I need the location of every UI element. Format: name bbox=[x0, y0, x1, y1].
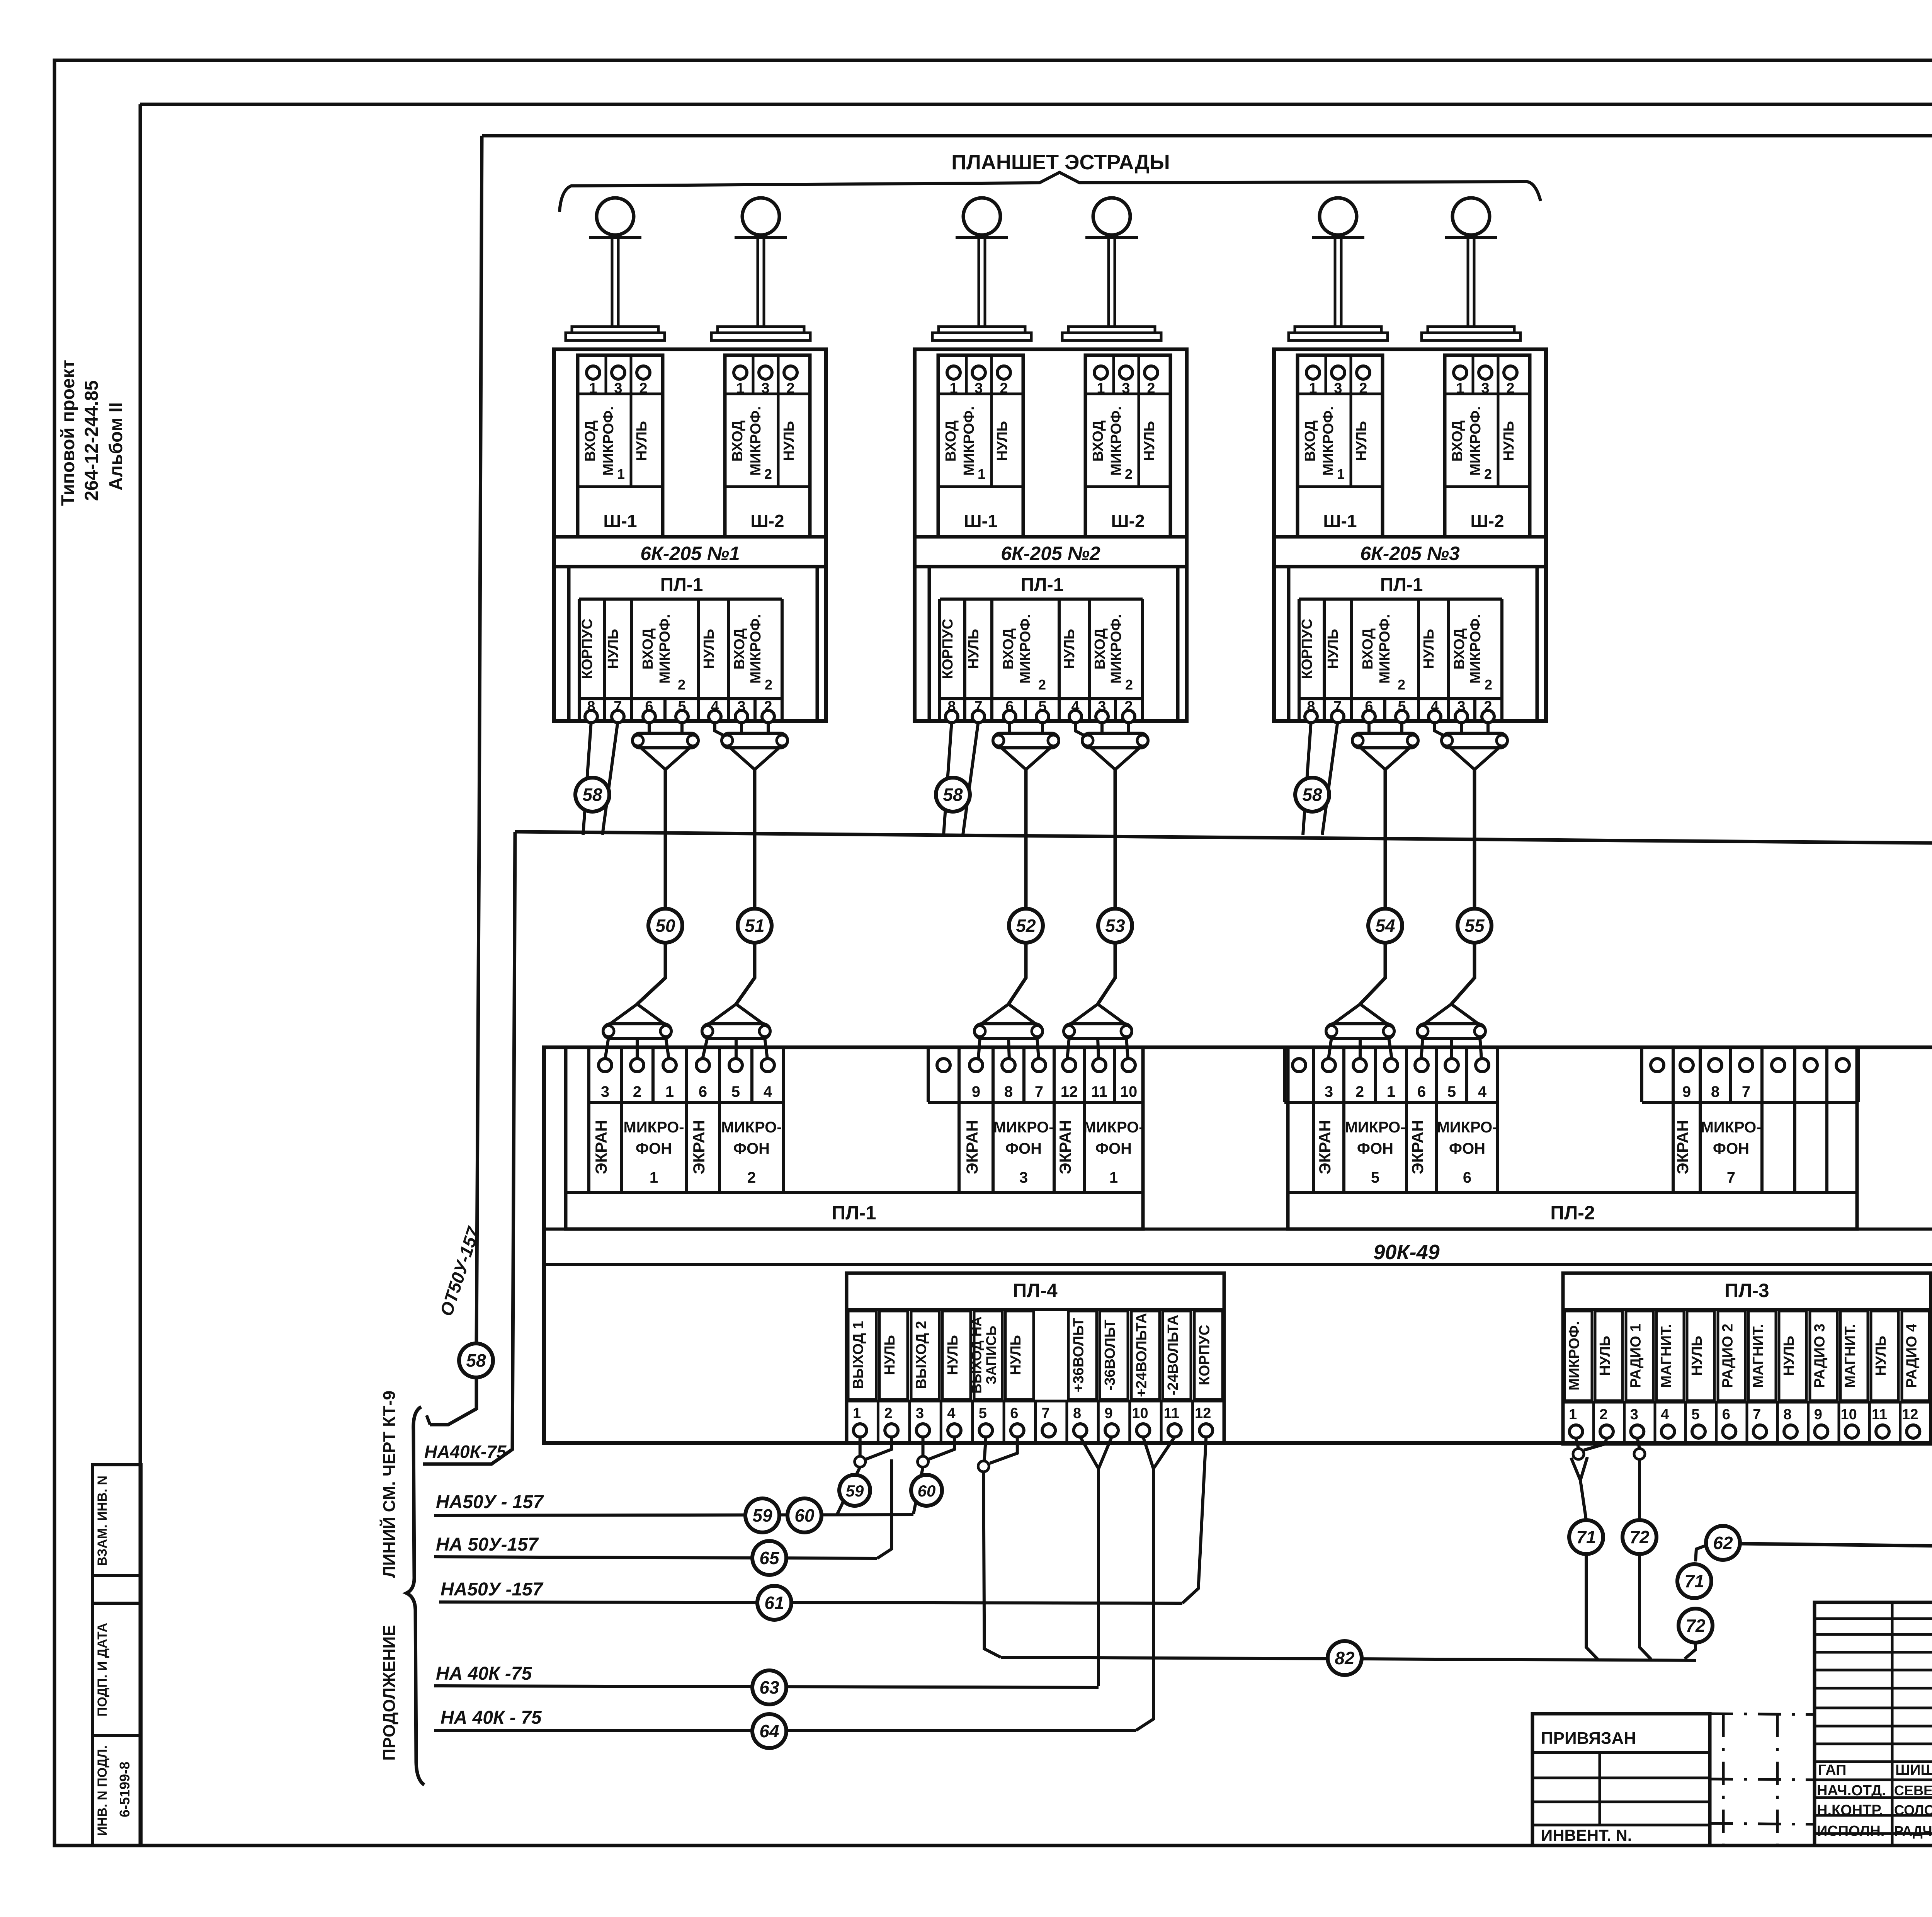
svg-text:Альбом II: Альбом II bbox=[106, 402, 126, 491]
cable circle 52 bbox=[1009, 909, 1043, 943]
svg-text:НУЛЬ: НУЛЬ bbox=[1501, 421, 1517, 461]
ПЛ-4 column 3 ВЫХОД 2 bbox=[911, 1311, 939, 1399]
svg-text:КОРПУС: КОРПУС bbox=[940, 619, 956, 679]
wire ПЛ-4 pin3 to junction bbox=[922, 1437, 925, 1456]
ПЛ-3 column 2 НУЛЬ bbox=[1595, 1311, 1622, 1401]
cable wire with circle 72 from ПЛ-3 down to line 82 bbox=[1638, 1459, 1641, 1520]
svg-text:ПОДП. И ДАТА: ПОДП. И ДАТА bbox=[95, 1623, 110, 1716]
svg-text:7: 7 bbox=[1742, 1083, 1750, 1100]
svg-text:52: 52 bbox=[1016, 916, 1036, 936]
svg-text:ВХОД: ВХОД bbox=[1092, 628, 1108, 670]
cable run 53 from block to strip bbox=[1098, 770, 1115, 1004]
svg-text:58: 58 bbox=[1302, 785, 1322, 805]
block 6К-205 №3 bbox=[1274, 349, 1546, 721]
hook wire from circle 62 down to stacked circles 71 72 bbox=[1696, 1545, 1707, 1561]
diagonal wire from junction3 to line 59/60 with circle 60 bbox=[913, 1467, 923, 1514]
svg-text:ШИШКОВ: ШИШКОВ bbox=[1895, 1762, 1932, 1778]
svg-text:12: 12 bbox=[1195, 1405, 1211, 1422]
connector Ш-2 bbox=[1445, 355, 1530, 537]
svg-text:МАГНИТ.: МАГНИТ. bbox=[1658, 1324, 1675, 1388]
svg-text:62: 62 bbox=[1713, 1533, 1733, 1553]
strip-side shield symbol for cable 52 bbox=[980, 1004, 1009, 1025]
svg-text:3: 3 bbox=[1630, 1406, 1638, 1423]
svg-text:ВХОД: ВХОД bbox=[731, 628, 748, 670]
ПЛ-3 column 8 НУЛЬ bbox=[1779, 1311, 1806, 1401]
plate ПЛ-1 of 6К-205 №3 bbox=[1289, 567, 1537, 721]
svg-text:6: 6 bbox=[1417, 1083, 1426, 1100]
connector Ш-2 bbox=[1085, 355, 1170, 537]
amplifier unit 90К-49 outer box bbox=[544, 1047, 1932, 1443]
ПЛ-4 column 12 КОРПУС bbox=[1194, 1311, 1223, 1399]
microphone BM1 bbox=[597, 198, 634, 235]
outgoing line to НА40К-75 with circle 63 bbox=[434, 1686, 1099, 1687]
svg-text:НУЛЬ: НУЛЬ bbox=[994, 421, 1010, 461]
svg-text:6: 6 bbox=[1010, 1405, 1018, 1422]
shield symbol under pins 4,3,2 bbox=[1435, 721, 1447, 737]
svg-text:7: 7 bbox=[1042, 1405, 1050, 1422]
svg-text:1: 1 bbox=[853, 1405, 861, 1422]
svg-text:50: 50 bbox=[655, 916, 675, 936]
svg-text:МИКРО-: МИКРО- bbox=[721, 1119, 782, 1136]
svg-text:11: 11 bbox=[1164, 1405, 1179, 1422]
stacked cable circle 71 bbox=[1677, 1564, 1711, 1598]
svg-text:ПЛ-1: ПЛ-1 bbox=[1380, 575, 1423, 595]
svg-text:Ш-1: Ш-1 bbox=[964, 511, 997, 531]
svg-text:НУЛЬ: НУЛЬ bbox=[1354, 421, 1370, 461]
svg-text:5: 5 bbox=[1691, 1406, 1699, 1423]
ПЛ-3 column 6 РАДИО 2 bbox=[1718, 1311, 1745, 1401]
svg-text:РАДИО 4: РАДИО 4 bbox=[1903, 1324, 1920, 1388]
svg-text:9: 9 bbox=[1682, 1083, 1691, 1100]
plate ПЛ-1 of 6К-205 №1 bbox=[569, 567, 817, 721]
wire ПЛ-4 pin2 continues down to line 65 bbox=[877, 1459, 891, 1558]
svg-text:ВХОД: ВХОД bbox=[1360, 628, 1376, 670]
svg-text:59: 59 bbox=[752, 1505, 772, 1525]
label cell ('МИКРО-', 'ФОН', '7') of ПЛ-2 bbox=[1700, 1102, 1762, 1192]
label cell ('МИКРО-', 'ФОН', '2') of ПЛ-1 bbox=[719, 1102, 784, 1192]
svg-text:ЭКРАН: ЭКРАН bbox=[1673, 1120, 1692, 1175]
svg-text:71: 71 bbox=[1684, 1571, 1704, 1591]
svg-text:НУЛЬ: НУЛЬ bbox=[1689, 1336, 1705, 1376]
svg-text:11: 11 bbox=[1091, 1083, 1107, 1100]
cable run 55 from block to strip bbox=[1451, 770, 1475, 1004]
binding table ПРИВЯЗАН bbox=[1532, 1714, 1710, 1845]
label cell ЭКРАН of ПЛ-1 bbox=[1054, 1102, 1084, 1192]
label cell blank of ПЛ-2 bbox=[1762, 1102, 1795, 1192]
ПЛ-3 column 4 МАГНИТ. bbox=[1656, 1311, 1684, 1401]
label cell ('МИКРО-', 'ФОН', '6') of ПЛ-2 bbox=[1437, 1102, 1498, 1192]
left sidebar spacer box bbox=[93, 1576, 141, 1603]
svg-text:НА 40К - 75: НА 40К - 75 bbox=[440, 1708, 542, 1728]
svg-text:8: 8 bbox=[1073, 1405, 1081, 1422]
svg-text:12: 12 bbox=[1061, 1083, 1078, 1100]
svg-text:7: 7 bbox=[1035, 1083, 1043, 1100]
svg-text:9: 9 bbox=[1104, 1405, 1112, 1422]
big brace ПРОДОЛЖЕНИЕ ЛИНИЙ bbox=[406, 1407, 424, 1785]
svg-text:МИКРОФ.: МИКРОФ. bbox=[1017, 614, 1034, 684]
svg-text:МИКРО-: МИКРО- bbox=[1701, 1119, 1761, 1136]
svg-text:ПРОДОЛЖЕНИЕ: ПРОДОЛЖЕНИЕ bbox=[380, 1625, 399, 1760]
svg-text:Ш-2: Ш-2 bbox=[750, 511, 784, 531]
svg-text:2: 2 bbox=[633, 1083, 641, 1100]
V wires from ПЛ-4 pins 10,11 down to line 64 bbox=[1143, 1437, 1153, 1469]
label cell ('МИКРО-', 'ФОН', '1') of ПЛ-1 bbox=[1084, 1102, 1143, 1192]
svg-text:ФОН: ФОН bbox=[1005, 1140, 1042, 1157]
svg-text:Ш-2: Ш-2 bbox=[1470, 511, 1504, 531]
svg-text:2: 2 bbox=[1484, 466, 1492, 482]
svg-text:4: 4 bbox=[1661, 1406, 1669, 1423]
room left wall continuing as ground wire to cable 58 exit bbox=[476, 136, 482, 1343]
svg-text:-24ВОЛЬТА: -24ВОЛЬТА bbox=[1165, 1315, 1181, 1395]
junction circle under ПЛ-4 pin 5 and pin6 bend bbox=[978, 1461, 989, 1472]
ground wires pins 8,7 to bus bbox=[1303, 721, 1311, 835]
svg-text:НУЛЬ: НУЛЬ bbox=[1873, 1336, 1889, 1376]
svg-text:НУЛЬ: НУЛЬ bbox=[1597, 1336, 1613, 1376]
plate ПЛ-2 box x=3333 bbox=[1288, 1047, 1857, 1229]
V wires from ПЛ-4 pins 8,9 down to line 63 bbox=[1080, 1437, 1099, 1469]
label cell ЭКРАН of ПЛ-1 bbox=[686, 1102, 719, 1192]
shield fan under ПЛ-3 junction1 bbox=[1571, 1458, 1580, 1480]
ПЛ-4 column 9 -36ВОЛЬТ bbox=[1100, 1311, 1128, 1399]
shield symbol under pins 4,3,2 bbox=[715, 721, 728, 737]
cable circle 62 at end of trench run bbox=[1706, 1526, 1740, 1560]
microphone BM3 bbox=[963, 198, 1000, 235]
svg-text:НУЛЬ: НУЛЬ bbox=[1325, 629, 1341, 669]
cable run 52 from block to strip bbox=[1009, 770, 1026, 1004]
ПЛ-4 column 4 НУЛЬ bbox=[942, 1311, 971, 1399]
svg-text:ФОН: ФОН bbox=[1095, 1140, 1132, 1157]
connector Ш-1 bbox=[578, 355, 663, 537]
svg-text:10: 10 bbox=[1132, 1405, 1148, 1422]
svg-text:НУЛЬ: НУЛЬ bbox=[1141, 421, 1158, 461]
room boundary top wall bbox=[482, 134, 1932, 138]
cable wire with circle 71 from ПЛ-3 down to line 82 bbox=[1580, 1480, 1586, 1520]
svg-text:64: 64 bbox=[759, 1721, 779, 1741]
terminal cells of ПЛ-2 pins 9 8 7 bbox=[1640, 1047, 1643, 1102]
cable circle 55 bbox=[1458, 909, 1492, 943]
stacked cable circle 72 bbox=[1679, 1609, 1713, 1643]
svg-text:МИКРОФ.: МИКРОФ. bbox=[1468, 614, 1484, 684]
svg-text:ВХОД: ВХОД bbox=[1302, 421, 1318, 462]
svg-text:Ш-1: Ш-1 bbox=[1323, 511, 1357, 531]
horizontal line with circle 82 bbox=[1001, 1657, 1696, 1660]
block 6К-205 №1 bbox=[554, 349, 826, 721]
strip-side shield symbol for cable 54 bbox=[1332, 1004, 1360, 1025]
svg-text:264-12-244.85: 264-12-244.85 bbox=[82, 380, 102, 501]
svg-text:6К-205 №2: 6К-205 №2 bbox=[1001, 543, 1100, 564]
wire ПЛ-4 pin4 bend to junction under pin3 bbox=[929, 1437, 954, 1459]
ПЛ-4 column 10 +24ВОЛЬТА bbox=[1131, 1311, 1160, 1399]
svg-text:ПЛ-4: ПЛ-4 bbox=[1013, 1280, 1058, 1301]
svg-text:МИКРО-: МИКРО- bbox=[623, 1119, 684, 1136]
ПЛ-4 column 6 НУЛЬ bbox=[1005, 1311, 1034, 1399]
outgoing line to НА50У-157 with circle 65 bbox=[434, 1557, 877, 1558]
svg-text:НУЛЬ: НУЛЬ bbox=[605, 629, 621, 669]
svg-text:10: 10 bbox=[1841, 1406, 1857, 1423]
svg-text:8: 8 bbox=[1004, 1083, 1013, 1100]
svg-text:НАЧ.ОТД.: НАЧ.ОТД. bbox=[1817, 1783, 1886, 1799]
wire ПЛ-4 pin2 bend to junction under pin1 bbox=[866, 1437, 891, 1459]
ground bus / room bottom wall bbox=[515, 832, 1932, 846]
svg-text:60: 60 bbox=[918, 1482, 936, 1500]
label cell ЭКРАН of ПЛ-1 bbox=[959, 1102, 993, 1192]
svg-text:РАДИО 1: РАДИО 1 bbox=[1628, 1324, 1644, 1388]
microphone BM6 bbox=[1452, 198, 1490, 235]
svg-text:РАДЧЕНКО: РАДЧЕНКО bbox=[1894, 1823, 1932, 1839]
svg-text:ИНВЕНТ. N.: ИНВЕНТ. N. bbox=[1541, 1826, 1632, 1844]
ПЛ-3 column 11 НУЛЬ bbox=[1871, 1311, 1898, 1401]
wire ПЛ-3 pin2 diagonal to junction1 bbox=[1584, 1438, 1607, 1450]
svg-text:1: 1 bbox=[1337, 466, 1345, 482]
svg-text:ПЛ-1: ПЛ-1 bbox=[832, 1202, 876, 1224]
svg-text:2: 2 bbox=[884, 1405, 893, 1422]
svg-text:МИКРО-: МИКРО- bbox=[1437, 1119, 1497, 1136]
svg-text:МИКРОФ.: МИКРОФ. bbox=[1377, 614, 1393, 684]
plate ПЛ-1 of 6К-205 №2 bbox=[929, 567, 1178, 721]
svg-text:6К-205 №3: 6К-205 №3 bbox=[1360, 543, 1460, 564]
svg-text:НУЛЬ: НУЛЬ bbox=[634, 421, 650, 461]
svg-text:НУЛЬ: НУЛЬ bbox=[945, 1335, 961, 1375]
shield symbol under pins 4,3,2 bbox=[1075, 721, 1088, 737]
svg-text:НА 50У-157: НА 50У-157 bbox=[436, 1534, 539, 1555]
svg-text:ВХОД: ВХОД bbox=[1000, 628, 1017, 670]
ПЛ-3 column 1 МИКРОФ. bbox=[1565, 1311, 1592, 1401]
shield symbol under pins 6,5 bbox=[648, 721, 651, 734]
svg-text:ПЛ-3: ПЛ-3 bbox=[1725, 1280, 1769, 1301]
svg-text:11: 11 bbox=[1872, 1406, 1887, 1423]
svg-text:6К-205 №1: 6К-205 №1 bbox=[640, 543, 740, 564]
ПЛ-4 column 11 -24ВОЛЬТА bbox=[1163, 1311, 1191, 1399]
svg-text:ПЛ-2: ПЛ-2 bbox=[1550, 1202, 1595, 1224]
svg-text:ЛИНИЙ СМ. ЧЕРТ КТ-9: ЛИНИЙ СМ. ЧЕРТ КТ-9 bbox=[379, 1391, 399, 1578]
svg-text:+24ВОЛЬТА: +24ВОЛЬТА bbox=[1133, 1313, 1150, 1397]
svg-text:61: 61 bbox=[764, 1593, 784, 1613]
svg-text:2: 2 bbox=[764, 466, 772, 482]
svg-text:5: 5 bbox=[979, 1405, 987, 1422]
strip-side shield symbol for cable 51 bbox=[707, 1004, 736, 1025]
plate ПЛ-3 box bbox=[1563, 1273, 1931, 1444]
svg-text:ИСПОЛН.: ИСПОЛН. bbox=[1817, 1823, 1884, 1839]
svg-text:НУЛЬ: НУЛЬ bbox=[781, 421, 797, 461]
svg-text:+36ВОЛЬТ: +36ВОЛЬТ bbox=[1071, 1318, 1087, 1393]
svg-text:1: 1 bbox=[1387, 1083, 1395, 1100]
inner frame top line bbox=[140, 103, 1932, 106]
svg-text:58: 58 bbox=[582, 785, 602, 805]
svg-text:54: 54 bbox=[1375, 916, 1395, 936]
svg-text:3: 3 bbox=[1325, 1083, 1333, 1100]
wire ПЛ-4 pin12 down to line 61 bbox=[1182, 1437, 1206, 1603]
svg-text:6: 6 bbox=[1463, 1169, 1471, 1186]
cable circle 58 bbox=[575, 778, 609, 812]
junction circle under ПЛ-3 pin 1 bbox=[1573, 1449, 1584, 1459]
ПЛ-4 column 1 ВЫХОД 1 bbox=[848, 1311, 876, 1399]
svg-text:ФОН: ФОН bbox=[733, 1140, 770, 1157]
svg-text:ЭКРАН: ЭКРАН bbox=[1408, 1120, 1427, 1175]
svg-text:НУЛЬ: НУЛЬ bbox=[1061, 629, 1078, 669]
ПЛ-3 column 9 РАДИО 3 bbox=[1810, 1311, 1837, 1401]
svg-text:2: 2 bbox=[765, 677, 772, 693]
svg-text:12: 12 bbox=[1902, 1406, 1918, 1423]
svg-text:ВЫХОД 1: ВЫХОД 1 bbox=[850, 1321, 867, 1389]
label cell ЭКРАН of ПЛ-2 bbox=[1406, 1102, 1437, 1192]
svg-text:НА50У -157: НА50У -157 bbox=[440, 1579, 544, 1600]
svg-text:ГАП: ГАП bbox=[1818, 1762, 1846, 1778]
cable run 54 from block to strip bbox=[1360, 770, 1385, 1004]
svg-text:Ш-2: Ш-2 bbox=[1111, 511, 1145, 531]
svg-text:ВХОД: ВХОД bbox=[1449, 421, 1466, 462]
svg-text:90К-49: 90К-49 bbox=[1373, 1241, 1439, 1264]
svg-text:КОРПУС: КОРПУС bbox=[1299, 619, 1315, 679]
svg-text:2: 2 bbox=[1355, 1083, 1364, 1100]
svg-text:НУЛЬ: НУЛЬ bbox=[966, 629, 982, 669]
svg-text:МИКРО-: МИКРО- bbox=[1345, 1119, 1405, 1136]
svg-text:55: 55 bbox=[1464, 916, 1485, 936]
svg-text:СОЛОДКОВ: СОЛОДКОВ bbox=[1894, 1802, 1932, 1818]
svg-text:ПЛ-1: ПЛ-1 bbox=[1021, 575, 1064, 595]
svg-text:МИКРО-: МИКРО- bbox=[993, 1119, 1054, 1136]
svg-text:МИКРОФ.: МИКРОФ. bbox=[1108, 406, 1124, 476]
microphone BM5 bbox=[1320, 198, 1357, 235]
svg-text:МИКРОФ.: МИКРОФ. bbox=[1320, 406, 1337, 476]
svg-text:71: 71 bbox=[1576, 1527, 1596, 1547]
plate ПЛ-1 box x=1464 bbox=[566, 1047, 1143, 1229]
cable run 50 from block to strip bbox=[637, 770, 665, 1004]
svg-text:МИКРОФ.: МИКРОФ. bbox=[1566, 1321, 1583, 1391]
svg-text:ЭКРАН: ЭКРАН bbox=[963, 1120, 981, 1175]
svg-text:СЕВЕРИНОВ: СЕВЕРИНОВ bbox=[1894, 1783, 1932, 1798]
svg-text:60: 60 bbox=[794, 1505, 815, 1525]
svg-text:-36ВОЛЬТ: -36ВОЛЬТ bbox=[1102, 1319, 1118, 1390]
ПЛ-3 column 7 МАГНИТ. bbox=[1748, 1311, 1776, 1401]
terminal cells of ПЛ-1 pins 3 2 1 6 5 4 bbox=[587, 1047, 590, 1102]
svg-text:ВХОД: ВХОД bbox=[1090, 421, 1106, 462]
shield symbol under pins 6,5 bbox=[1367, 721, 1371, 734]
svg-text:ФОН: ФОН bbox=[636, 1140, 672, 1157]
junction circle under ПЛ-4 pin 3 bbox=[918, 1456, 929, 1467]
svg-text:РАДИО 3: РАДИО 3 bbox=[1811, 1324, 1828, 1388]
svg-text:2: 2 bbox=[1485, 677, 1492, 693]
junction circle under ПЛ-3 pin 3 bbox=[1634, 1449, 1645, 1459]
cable circle 53 bbox=[1098, 909, 1132, 943]
title block revision table bbox=[1815, 1602, 1932, 1845]
svg-text:82: 82 bbox=[1335, 1648, 1355, 1668]
svg-text:ВХОД: ВХОД bbox=[943, 421, 959, 462]
svg-text:ВХОД: ВХОД bbox=[730, 421, 746, 462]
svg-text:65: 65 bbox=[759, 1548, 780, 1568]
microphone BM2 bbox=[742, 198, 779, 235]
left sidebar box ПОДП. И ДАТА bbox=[93, 1603, 141, 1735]
left sidebar box ИНВ. N ПОДЛ. bbox=[93, 1735, 141, 1845]
svg-text:2: 2 bbox=[1038, 677, 1046, 693]
ПЛ-3 column 5 НУЛЬ bbox=[1687, 1311, 1714, 1401]
junction circle under ПЛ-4 pin 1 bbox=[855, 1456, 866, 1467]
inner frame left vertical bbox=[139, 104, 142, 1845]
svg-text:МАГНИТ.: МАГНИТ. bbox=[1842, 1324, 1859, 1388]
svg-text:ВХОД: ВХОД bbox=[640, 628, 656, 670]
svg-text:ЭКРАН: ЭКРАН bbox=[690, 1120, 708, 1175]
svg-text:5: 5 bbox=[731, 1083, 740, 1100]
svg-text:МИКРОФ.: МИКРОФ. bbox=[657, 614, 673, 684]
svg-text:НУЛЬ: НУЛЬ bbox=[1781, 1336, 1797, 1376]
svg-text:51: 51 bbox=[745, 916, 764, 936]
outgoing line to НА50У-157 with circle 61 bbox=[439, 1602, 1182, 1603]
label cell ЭКРАН of ПЛ-2 bbox=[1673, 1102, 1700, 1192]
svg-text:1: 1 bbox=[1569, 1406, 1577, 1423]
strip-side shield symbol for cable 53 bbox=[1069, 1004, 1098, 1025]
svg-text:ВЗАМ. ИНВ. N: ВЗАМ. ИНВ. N bbox=[95, 1476, 110, 1566]
cable circle 50 bbox=[648, 909, 682, 943]
svg-text:7: 7 bbox=[1727, 1169, 1735, 1186]
svg-text:ФОН: ФОН bbox=[1357, 1140, 1393, 1157]
svg-text:10: 10 bbox=[1120, 1083, 1138, 1100]
outgoing line to НА40К-75 with circle 64 bbox=[434, 1729, 1136, 1732]
svg-text:2: 2 bbox=[1398, 677, 1405, 693]
svg-text:4: 4 bbox=[764, 1083, 772, 1100]
svg-text:3: 3 bbox=[601, 1083, 609, 1100]
ПЛ-3 column 3 РАДИО 1 bbox=[1626, 1311, 1653, 1401]
svg-text:8: 8 bbox=[1711, 1083, 1719, 1100]
horizontal line of 90К-49 band bbox=[544, 1263, 1932, 1266]
block 6К-205 №2 bbox=[915, 349, 1187, 721]
label cell ('МИКРО-', 'ФОН', '5') of ПЛ-2 bbox=[1344, 1102, 1406, 1192]
svg-text:ЗАПИСЬ: ЗАПИСЬ bbox=[983, 1326, 999, 1384]
shield symbol under pins 6,5 bbox=[1008, 721, 1011, 734]
svg-text:ЭКРАН: ЭКРАН bbox=[592, 1120, 610, 1175]
svg-text:НУЛЬ: НУЛЬ bbox=[1008, 1335, 1024, 1375]
wire ПЛ-4 pin1 to junction bbox=[859, 1437, 862, 1456]
svg-text:8: 8 bbox=[1783, 1406, 1791, 1423]
svg-text:6: 6 bbox=[699, 1083, 707, 1100]
cable run 51 from block to strip bbox=[736, 770, 755, 1004]
svg-text:1: 1 bbox=[665, 1083, 674, 1100]
svg-text:1: 1 bbox=[650, 1169, 658, 1186]
svg-text:58: 58 bbox=[943, 785, 963, 805]
block name band 6К-205 №3 bbox=[1274, 535, 1546, 539]
svg-text:1: 1 bbox=[617, 466, 625, 482]
svg-text:ПРИВЯЗАН: ПРИВЯЗАН bbox=[1541, 1729, 1636, 1748]
svg-text:ФОН: ФОН bbox=[1713, 1140, 1749, 1157]
svg-text:3: 3 bbox=[916, 1405, 924, 1422]
ПЛ-4 column 5 ('ВЫХОД НА', 'ЗАПИСЬ') bbox=[974, 1311, 1002, 1399]
svg-text:НА40К-75: НА40К-75 bbox=[424, 1442, 507, 1462]
svg-text:КОРПУС: КОРПУС bbox=[1196, 1325, 1213, 1386]
svg-text:2: 2 bbox=[678, 677, 685, 693]
ПЛ-3 column 12 РАДИО 4 bbox=[1902, 1311, 1929, 1401]
svg-text:58: 58 bbox=[466, 1350, 486, 1371]
svg-text:2: 2 bbox=[1125, 677, 1133, 693]
left sidebar box ВЗАМ. ИНВ. N bbox=[93, 1465, 141, 1576]
svg-text:3: 3 bbox=[1019, 1169, 1028, 1186]
ground wires pins 8,7 to bus bbox=[944, 721, 952, 835]
label cell ('МИКРО-', 'ФОН', '3') of ПЛ-1 bbox=[993, 1102, 1054, 1192]
svg-text:МИКРОФ.: МИКРОФ. bbox=[961, 406, 977, 476]
svg-text:ПЛ-1: ПЛ-1 bbox=[660, 575, 703, 595]
connector Ш-1 bbox=[1298, 355, 1383, 537]
outgoing line to НА50У-157 with circles 59 60 bbox=[434, 1515, 913, 1515]
svg-text:ВЫХОД НА: ВЫХОД НА bbox=[968, 1316, 984, 1394]
strip-side shield symbol for cable 55 bbox=[1423, 1004, 1451, 1025]
svg-text:ВХОД: ВХОД bbox=[1451, 628, 1468, 670]
connector Ш-1 bbox=[938, 355, 1023, 537]
long wire from ПЛ-4 pin5 down to horizontal line 82 bbox=[983, 1472, 1001, 1657]
block name band 6К-205 №2 bbox=[915, 535, 1187, 539]
label cell ЭКРАН of ПЛ-1 bbox=[589, 1102, 621, 1192]
svg-text:КОРПУС: КОРПУС bbox=[579, 619, 595, 679]
svg-text:6-5199-8: 6-5199-8 bbox=[117, 1762, 133, 1817]
svg-text:ИНВ. N ПОДЛ.: ИНВ. N ПОДЛ. bbox=[95, 1745, 110, 1836]
svg-text:МАГНИТ.: МАГНИТ. bbox=[1750, 1324, 1767, 1388]
svg-text:РАДИО 2: РАДИО 2 bbox=[1719, 1324, 1736, 1388]
